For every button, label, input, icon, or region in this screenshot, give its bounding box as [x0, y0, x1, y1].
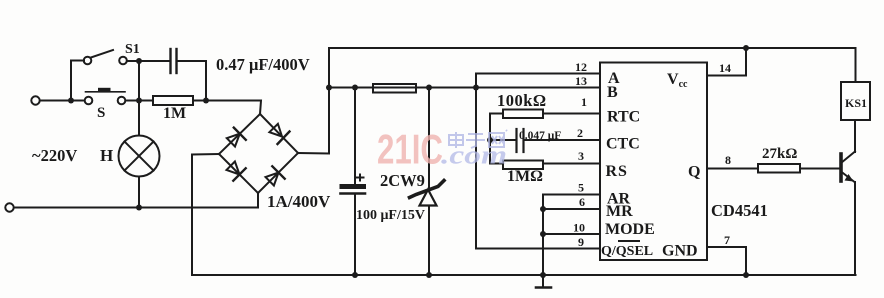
capacitor C2 100uF/15V electrolytic: [340, 88, 367, 276]
resistor R5 27k: [758, 164, 800, 173]
svg-text:13: 13: [575, 74, 587, 88]
svg-text:H: H: [100, 146, 113, 165]
svg-text:3: 3: [578, 149, 584, 163]
ground: [536, 275, 551, 288]
wire R1 to junction: [193, 100, 206, 102]
svg-text:0.047 μF: 0.047 μF: [519, 130, 561, 142]
svg-text:6: 6: [579, 195, 585, 209]
node rail tap: [326, 85, 332, 91]
label C2 polarity +: [357, 175, 364, 181]
terminal top AC input: [31, 96, 39, 104]
wire A/B to QSEL column: [476, 88, 600, 249]
svg-text:1MΩ: 1MΩ: [507, 168, 543, 185]
node MODE tap: [540, 231, 546, 237]
diode D4 bottom-right: [266, 166, 285, 185]
wire bridge right corner to top rail: [298, 48, 329, 154]
node pin7 on rail: [743, 272, 749, 278]
wire up to S1 branch: [71, 61, 84, 101]
svg-text:14: 14: [719, 61, 731, 75]
resistor R4 1M: [490, 161, 600, 170]
wire junction to bridge top: [206, 101, 261, 115]
wire pin6 MR: [543, 208, 600, 210]
relay KS1: [841, 82, 870, 120]
node S1 output junction: [136, 58, 142, 64]
svg-text:5: 5: [578, 181, 584, 195]
capacitor C1 0.47uF/400V: [171, 49, 177, 73]
svg-text:21IC: 21IC: [377, 126, 443, 173]
overline on QSEL: [618, 240, 640, 242]
svg-text:100 μF/15V: 100 μF/15V: [356, 208, 425, 223]
node A/B tap: [473, 85, 479, 91]
svg-text:1A/400V: 1A/400V: [267, 192, 331, 211]
svg-text:CTC: CTC: [606, 136, 640, 153]
wire pin10 MODE: [543, 233, 600, 235]
diode D1 top-left: [227, 128, 246, 147]
svg-text:MR: MR: [606, 203, 633, 220]
svg-text:2CW9: 2CW9: [380, 171, 425, 190]
watermark CJK dianzi wang approximated: [449, 130, 507, 148]
node zener bottom: [426, 272, 432, 278]
svg-text:8: 8: [725, 153, 731, 167]
wire pin8 Q: [707, 168, 758, 170]
wire top rail Vcc: [329, 48, 856, 82]
svg-text:RS: RS: [606, 163, 628, 180]
wire pin14 Vcc: [707, 48, 746, 76]
terminal bottom AC input: [5, 203, 13, 211]
node junction left: [68, 98, 74, 104]
wire pin7 GND: [707, 247, 746, 275]
svg-text:GND: GND: [662, 243, 698, 260]
svg-text:1M: 1M: [163, 105, 186, 122]
svg-text:MODE: MODE: [605, 221, 655, 238]
diode D3 bottom-left: [227, 162, 246, 181]
svg-text:2: 2: [577, 126, 583, 140]
node pin14 on rail: [743, 45, 749, 51]
wire bridge left corner to negative rail: [192, 154, 219, 275]
transistor Q1: [841, 152, 855, 276]
svg-text:Q: Q: [688, 164, 700, 181]
watermark 21IC.com: [377, 126, 507, 173]
node RC ladder column: [487, 114, 493, 164]
wire R5 to base: [800, 168, 840, 170]
svg-text:9: 9: [578, 235, 584, 249]
svg-text:27kΩ: 27kΩ: [762, 146, 797, 162]
capacitor C3 0.047uF: [490, 129, 600, 152]
svg-text:B: B: [607, 84, 618, 101]
IC U1 CD4541 timer body: [600, 63, 707, 261]
svg-text:Vcc: Vcc: [667, 71, 688, 90]
svg-text:S1: S1: [125, 42, 140, 57]
svg-text:S: S: [97, 105, 105, 121]
node C1/R1 junction: [203, 98, 209, 104]
svg-text:KS1: KS1: [845, 96, 867, 110]
node zener tap: [426, 85, 432, 91]
wire lamp top: [138, 101, 140, 136]
node cap tap: [352, 85, 358, 91]
bridge rectifier 1A/400V frame: [219, 114, 298, 193]
svg-text:1: 1: [581, 95, 587, 109]
switch S pushbutton: [85, 88, 126, 104]
wire pin13 B: [476, 87, 600, 89]
node C2 bottom: [352, 272, 358, 278]
wire S to 1M: [126, 100, 154, 102]
svg-text:CD4541: CD4541: [711, 201, 768, 220]
resistor R2 (unlabeled): [373, 84, 416, 93]
zener VD 2CW9: [410, 88, 445, 276]
wire bottom rail: [192, 274, 856, 276]
svg-text:12: 12: [575, 60, 587, 74]
lamp H: [119, 136, 160, 177]
svg-text:Q/QSEL: Q/QSEL: [601, 244, 653, 259]
switch S1: [84, 50, 127, 64]
diode D2 top-right: [269, 124, 289, 144]
node ground tap on rail: [540, 272, 546, 278]
wire pin5 AR: [543, 195, 600, 276]
wire lamp bottom: [138, 177, 140, 208]
wire S1 to node: [127, 60, 171, 62]
resistor R1 1M: [153, 96, 193, 105]
wire neutral rail: [14, 193, 258, 208]
svg-text:7: 7: [724, 233, 730, 247]
svg-text:~220V: ~220V: [32, 146, 77, 165]
wire C1 right lead: [179, 61, 207, 101]
node lamp-neutral junction: [136, 205, 142, 211]
wire KS1 to collector: [854, 120, 856, 152]
wire DC bus y87: [329, 87, 476, 89]
node S output junction: [136, 98, 142, 104]
wire pin12 A: [476, 74, 600, 88]
wire terminal to S junction: [40, 100, 84, 102]
resistor R3 100k: [490, 110, 600, 119]
svg-text:0.47 μF/400V: 0.47 μF/400V: [216, 55, 310, 74]
svg-text:RTC: RTC: [607, 109, 640, 126]
wire node column: [138, 61, 140, 101]
svg-text:100kΩ: 100kΩ: [497, 91, 547, 110]
node MR tap: [540, 206, 546, 212]
svg-text:10: 10: [573, 221, 585, 235]
